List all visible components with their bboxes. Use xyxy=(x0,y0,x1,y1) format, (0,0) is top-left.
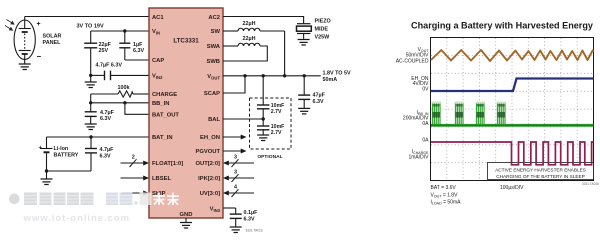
capacitor C8 47uF 6.3V on VOUT xyxy=(298,76,310,109)
svg-text:3V TO 19V: 3V TO 19V xyxy=(77,24,104,30)
svg-text:IPK[2:0]: IPK[2:0] xyxy=(198,176,220,182)
svg-text:1mA/DIV: 1mA/DIV xyxy=(408,154,429,160)
svg-text:22µH: 22µH xyxy=(243,36,256,42)
svg-text:SCAP: SCAP xyxy=(204,91,220,97)
junction VIN/1uF xyxy=(123,29,126,32)
ground under C8 xyxy=(298,108,310,114)
capacitor C6 10mF 2.7V top supercap xyxy=(257,76,269,119)
svg-text:OUT[2:0]: OUT[2:0] xyxy=(196,161,221,167)
svg-text:BAT = 3.6V: BAT = 3.6V xyxy=(431,185,457,191)
capacitor C7 10mF 2.7V bottom supercap xyxy=(257,119,269,135)
junction VIN2 node xyxy=(89,74,92,77)
svg-text:BB_IN: BB_IN xyxy=(152,101,169,107)
capacitor C1 22uF 25V xyxy=(84,31,97,75)
trace EH_ON xyxy=(431,79,594,92)
svg-text:10mF: 10mF xyxy=(271,124,285,130)
capacitor C2 1uF 6.3V to CAP pin xyxy=(119,31,149,60)
svg-text:100k: 100k xyxy=(118,85,130,91)
svg-text:0.1µF: 0.1µF xyxy=(244,210,259,216)
bus slash 2 on FLOAT xyxy=(130,159,137,167)
svg-text:www.iot-online.com: www.iot-online.com xyxy=(23,213,130,224)
junction SCAP/VOUT xyxy=(243,74,246,77)
svg-text:BAT_OUT: BAT_OUT xyxy=(152,113,179,119)
svg-text:PGVOUT: PGVOUT xyxy=(196,149,221,155)
battery BT1 Li-Ion xyxy=(41,137,53,171)
svg-text:CAP: CAP xyxy=(152,58,164,64)
svg-text:SW: SW xyxy=(211,29,221,35)
wire VOUT rail xyxy=(223,75,321,77)
capacitor C9 0.1uF 6.3V on VIN3 xyxy=(223,208,242,227)
svg-text:SOLAR: SOLAR xyxy=(43,34,62,40)
wire BAL xyxy=(223,118,263,120)
piezo transducer PZ1 MIDE V25W xyxy=(297,24,312,39)
svg-text:10mF: 10mF xyxy=(271,103,285,109)
svg-text:−: − xyxy=(37,52,42,61)
svg-text:LBSEL: LBSEL xyxy=(152,176,171,182)
svg-text:EH_ON: EH_ON xyxy=(200,135,220,141)
svg-text:BATTERY: BATTERY xyxy=(54,153,79,159)
svg-text:1.8V TO 5V: 1.8V TO 5V xyxy=(323,71,351,77)
junction C8/VOUT xyxy=(303,74,306,77)
svg-text:SWA: SWA xyxy=(207,44,221,50)
svg-text:VIN2: VIN2 xyxy=(152,74,163,80)
svg-text:Charging a Battery with Harves: Charging a Battery with Harvested Energy xyxy=(411,21,594,31)
svg-text:6.3V: 6.3V xyxy=(313,99,324,105)
inductor L2 22uH SWA to SWB xyxy=(223,43,267,61)
svg-text:OPTIONAL: OPTIONAL xyxy=(257,154,282,160)
svg-text:0V: 0V xyxy=(422,87,429,93)
svg-text:6.3V: 6.3V xyxy=(100,154,111,160)
arrow into SHIP xyxy=(122,192,144,194)
inductor L1 22uH SW to VOUT xyxy=(223,28,285,76)
ground under supercaps xyxy=(257,135,269,141)
svg-text:6.3V: 6.3V xyxy=(244,216,255,222)
scope annotation box xyxy=(488,163,594,180)
svg-text:PANEL: PANEL xyxy=(43,40,62,46)
ground at VIN2 node xyxy=(90,75,92,82)
svg-text:AC1: AC1 xyxy=(152,15,164,21)
junction supercap/VOUT xyxy=(262,74,265,77)
svg-text:6.3V: 6.3V xyxy=(100,116,111,122)
trace VOUT sawtooth xyxy=(431,50,594,61)
solar panel PV1 light rays xyxy=(5,20,14,31)
junction L1/VOUT xyxy=(283,74,286,77)
wire solar panel to AC1 xyxy=(25,16,149,18)
svg-text:100µs/DIV: 100µs/DIV xyxy=(500,185,524,191)
svg-text:+: + xyxy=(37,21,41,28)
wire AC2 to piezo xyxy=(223,17,304,24)
op IC U1 LTC3331 body xyxy=(149,8,223,218)
svg-text:SWB: SWB xyxy=(206,59,220,65)
svg-text:6.3V: 6.3V xyxy=(133,48,144,54)
svg-text:25V: 25V xyxy=(99,48,109,54)
capacitor C4 4.7uF 6.3V on BB_IN node xyxy=(85,103,97,124)
svg-text:3: 3 xyxy=(234,155,237,161)
svg-text:LTC3331: LTC3331 xyxy=(173,38,199,45)
trace ICHARGE xyxy=(431,142,594,165)
arrow into IPK[2:0] xyxy=(228,177,254,179)
scope grid xyxy=(431,38,593,180)
svg-text:UV[3:0]: UV[3:0] xyxy=(200,191,220,197)
svg-text:47µF: 47µF xyxy=(313,93,326,99)
arrow EH_ON output xyxy=(223,136,242,138)
wire battery bottom xyxy=(47,170,92,172)
svg-text:3331 TA01a: 3331 TA01a xyxy=(245,228,262,232)
bus slash 3 on IPK xyxy=(232,174,239,182)
wire SCAP riser xyxy=(223,76,245,93)
svg-text:4.7µF 6.3V: 4.7µF 6.3V xyxy=(96,63,123,69)
svg-text:3: 3 xyxy=(234,170,237,176)
capacitor C5 4.7uF 6.3V across battery xyxy=(85,137,97,171)
arrow PGVOUT output xyxy=(223,150,242,152)
bus slash 3 on OUT xyxy=(232,159,239,167)
svg-text:4: 4 xyxy=(234,185,237,191)
scope plot frame xyxy=(430,37,594,181)
svg-text:3331 TA01b: 3331 TA01b xyxy=(582,182,599,186)
svg-text:BAL: BAL xyxy=(208,117,220,123)
ground under C4 xyxy=(85,124,97,130)
trace IBB_IN burst 3 xyxy=(476,102,486,125)
ground under piezo xyxy=(298,40,310,46)
svg-text:Li-Ion: Li-Ion xyxy=(54,146,69,152)
wire VIN rail xyxy=(91,30,149,32)
junction BB_IN node xyxy=(89,101,92,104)
wire BAT_OUT link xyxy=(125,103,149,115)
svg-text:FLOAT[1:0]: FLOAT[1:0] xyxy=(152,161,183,167)
svg-text:0A: 0A xyxy=(422,138,429,144)
trace IBB_IN burst 4 xyxy=(497,102,507,125)
svg-text:50mA: 50mA xyxy=(323,77,338,83)
svg-text:BAT_IN: BAT_IN xyxy=(152,135,173,141)
svg-text:CHARGE: CHARGE xyxy=(152,92,177,98)
trace IBB_IN baseline xyxy=(431,124,594,127)
bus slash 4 on UV xyxy=(232,189,239,197)
svg-text:AC2: AC2 xyxy=(208,15,220,21)
svg-text:4.7µF: 4.7µF xyxy=(100,147,115,153)
arrow into UV[3:0] xyxy=(228,192,254,194)
ground under solar panel xyxy=(24,59,26,64)
junction battery ground xyxy=(45,169,48,172)
svg-text:22µH: 22µH xyxy=(243,21,256,27)
ground under battery xyxy=(46,171,48,179)
svg-text:2.7V: 2.7V xyxy=(271,130,282,136)
solar panel PV1 body xyxy=(14,20,35,60)
capacitor C3 4.7uF 6.3V series to VIN2 xyxy=(91,71,149,81)
svg-text:VIN3: VIN3 xyxy=(210,206,221,212)
trace IBB_IN burst 2 xyxy=(455,102,465,125)
svg-text:CHARGING OF THE BATTERY IN SLE: CHARGING OF THE BATTERY IN SLEEP xyxy=(496,174,584,179)
junction BAL/supercap midpoint xyxy=(262,117,265,120)
svg-text:+: + xyxy=(39,146,43,152)
junction BAT_IN/C5 xyxy=(89,135,92,138)
arrow into FLOAT[1:0] xyxy=(121,162,145,164)
svg-text:GND: GND xyxy=(180,212,193,218)
svg-text:VIN: VIN xyxy=(152,29,160,35)
ground under C9 xyxy=(230,227,242,233)
svg-text:2.7V: 2.7V xyxy=(271,109,282,115)
arrow into LBSEL xyxy=(121,177,145,179)
svg-text:ACTIVE ENERGY HARVESTER ENABLE: ACTIVE ENERGY HARVESTER ENABLES xyxy=(495,167,586,172)
trace IBB_IN burst 1 xyxy=(432,102,442,125)
junction BB_IN/BAT_OUT xyxy=(123,101,126,104)
wire BB_IN xyxy=(91,102,149,104)
arrow into OUT[2:0] xyxy=(228,162,254,164)
svg-text:V25W: V25W xyxy=(315,34,331,40)
svg-text:VOUT: VOUT xyxy=(207,74,220,80)
optional dashed box xyxy=(250,98,292,149)
svg-text:0A: 0A xyxy=(422,121,429,127)
ground under GND pin xyxy=(185,218,187,223)
wire BAT_IN xyxy=(47,136,150,138)
resistor R1 100k to CHARGE xyxy=(91,91,149,103)
svg-text:PIEZO: PIEZO xyxy=(315,19,331,25)
svg-text:AC-COUPLED: AC-COUPLED xyxy=(396,58,429,64)
svg-text:MIDE: MIDE xyxy=(315,27,329,33)
svg-text:2: 2 xyxy=(132,155,135,161)
